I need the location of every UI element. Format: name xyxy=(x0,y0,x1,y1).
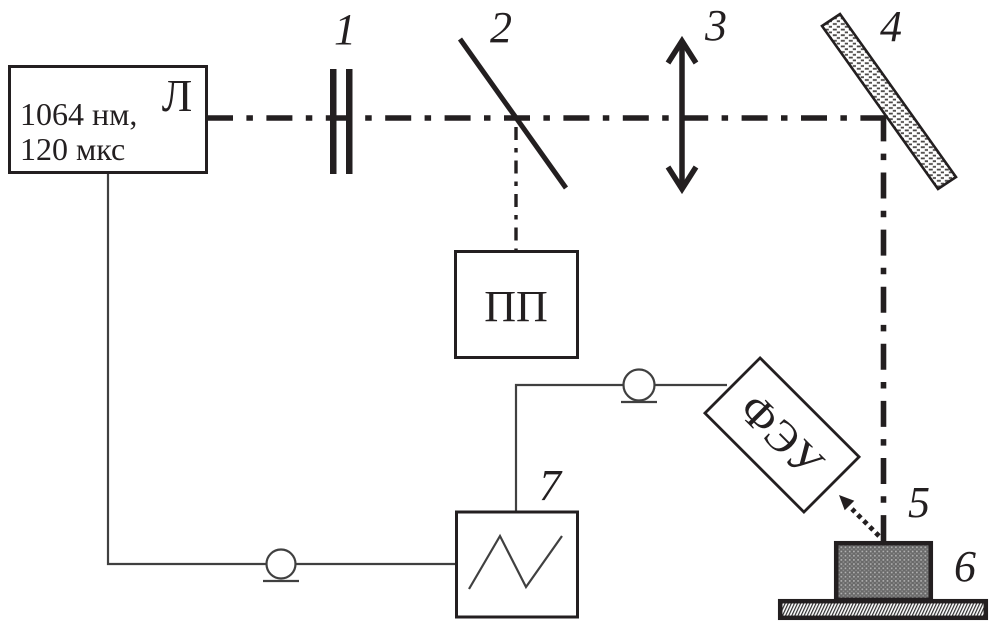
svg-text:7: 7 xyxy=(539,461,563,510)
svg-text:3: 3 xyxy=(704,1,727,50)
svg-text:120 мкс: 120 мкс xyxy=(20,131,125,167)
svg-text:ПП: ПП xyxy=(484,282,548,331)
svg-text:1: 1 xyxy=(334,5,356,54)
svg-text:2: 2 xyxy=(490,3,512,52)
svg-text:5: 5 xyxy=(908,478,930,527)
svg-text:1064 нм,: 1064 нм, xyxy=(20,96,137,132)
svg-text:4: 4 xyxy=(880,2,902,51)
svg-text:Л: Л xyxy=(162,71,193,121)
svg-text:6: 6 xyxy=(954,542,976,591)
